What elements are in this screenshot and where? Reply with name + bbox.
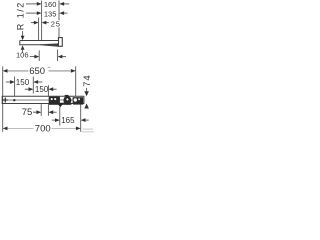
dimension 650: dim line	[8, 70, 71, 72]
dimension 160: arrowheads	[37, 2, 42, 6]
svg-text:135: 135	[44, 9, 57, 18]
dimension 150 (left): tails	[6, 81, 43, 83]
bar-height dimension (vertical, at bar left)	[22, 31, 24, 53]
dimension 150 (second): tails	[25, 88, 57, 90]
svg-text:150: 150	[16, 78, 30, 87]
svg-text:25: 25	[51, 19, 61, 28]
svg-text:74: 74	[82, 74, 93, 87]
extension line x41.2 lower	[40, 104, 42, 116]
extension line x80.7	[80, 104, 82, 132]
dimension 25: dim line tails	[31, 22, 49, 24]
dimension 160: dim line tails	[26, 3, 69, 5]
dimension 135: dim line tails	[26, 12, 67, 14]
extension line x14.6	[14, 77, 16, 96]
rail groove line	[3, 99, 84, 101]
dimension 165: arrowheads	[55, 118, 60, 122]
svg-text:150: 150	[35, 85, 49, 94]
svg-text:650: 650	[29, 66, 45, 77]
dimension 106: extension lines	[38, 50, 40, 61]
slider clamp lever	[58, 104, 63, 107]
svg-text:106: 106	[16, 51, 29, 60]
dimension 150 (second): arrowheads	[29, 87, 34, 91]
dimension 165: tails	[52, 119, 89, 121]
svg-text:R 1/2: R 1/2	[15, 1, 25, 30]
dimension 74 (vertical): stems	[86, 88, 88, 92]
faint watermark	[83, 128, 94, 130]
dimension 135: arrowheads	[37, 11, 42, 15]
extension line left x2.7	[2, 67, 4, 132]
extension line x33.3	[32, 77, 34, 94]
dimension 75: tails	[33, 111, 57, 113]
dimension 150 (left): arrowheads	[10, 80, 15, 84]
wall bar side profile	[20, 41, 59, 46]
small stud on rail	[13, 99, 15, 101]
dimension 700: arrowheads	[3, 127, 8, 131]
dimension 650: arrowheads	[3, 69, 8, 73]
svg-text:160: 160	[44, 0, 57, 9]
dimension 700: dim line (light)	[8, 127, 76, 129]
right bracket	[73, 97, 84, 103]
bar holder wedge (dark)	[40, 43, 58, 46]
dimension 75: arrowheads	[36, 110, 41, 114]
extension line x48.4 lower	[47, 104, 49, 116]
dimension 25: arrowheads	[34, 21, 39, 25]
extension line x59.8	[59, 107, 61, 126]
svg-text:165: 165	[61, 116, 75, 125]
extension line x41.6	[41, 1, 43, 41]
extension line x75.7 (650 right)	[75, 67, 77, 96]
left bracket screw cross	[5, 98, 6, 103]
svg-text:75: 75	[22, 107, 33, 118]
extension line x59	[58, 1, 60, 21]
wall bar front view: rail body	[2, 96, 85, 103]
slider body	[49, 97, 60, 104]
dimension 106: tails	[30, 56, 66, 58]
extension line x38.6	[38, 18, 40, 41]
dimension 74: arrowheads	[84, 91, 89, 96]
wall plate block	[59, 38, 63, 47]
footnote marks	[48, 67, 49, 68]
slider knob	[65, 95, 69, 97]
dimension 106: arrowheads	[34, 55, 39, 59]
svg-text:700: 700	[35, 124, 51, 135]
extension line x48.4 upper	[47, 85, 49, 96]
